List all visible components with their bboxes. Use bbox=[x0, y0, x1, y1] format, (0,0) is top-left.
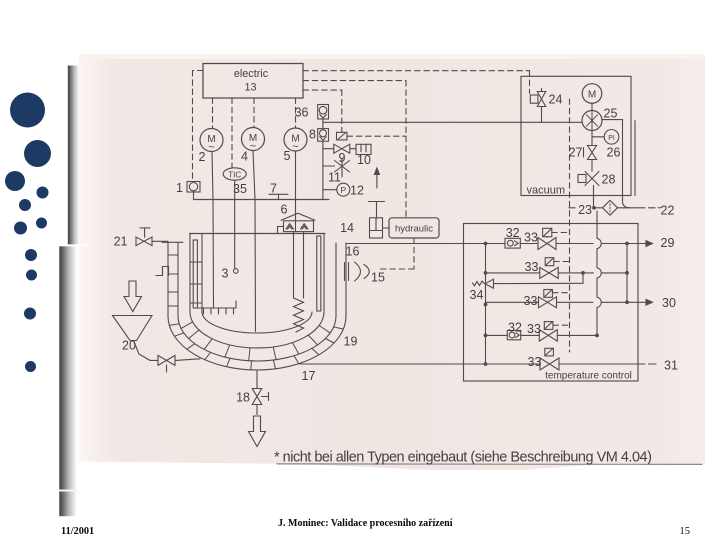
svg-text:18: 18 bbox=[236, 391, 250, 405]
svg-text:6: 6 bbox=[281, 203, 288, 217]
svg-text:28: 28 bbox=[602, 173, 616, 187]
svg-text:10: 10 bbox=[357, 153, 371, 167]
svg-text:33: 33 bbox=[527, 322, 541, 336]
svg-text:~: ~ bbox=[292, 141, 298, 153]
svg-text:hydraulic: hydraulic bbox=[395, 224, 433, 235]
svg-text:35: 35 bbox=[233, 182, 247, 196]
svg-text:25: 25 bbox=[604, 107, 618, 121]
svg-text:32: 32 bbox=[506, 226, 520, 240]
svg-text:29: 29 bbox=[661, 236, 675, 250]
svg-text:33: 33 bbox=[524, 294, 538, 308]
svg-text:24: 24 bbox=[549, 93, 563, 107]
svg-text:3: 3 bbox=[222, 267, 229, 281]
svg-text:8: 8 bbox=[309, 127, 316, 141]
svg-text:15: 15 bbox=[371, 271, 385, 285]
svg-text:13: 13 bbox=[244, 82, 256, 94]
svg-text:31: 31 bbox=[664, 359, 678, 373]
svg-text:21: 21 bbox=[114, 235, 128, 249]
svg-text:4: 4 bbox=[241, 150, 248, 164]
svg-text:27: 27 bbox=[569, 146, 583, 160]
svg-text:30: 30 bbox=[662, 296, 676, 310]
svg-text:9: 9 bbox=[339, 151, 346, 165]
svg-text:33: 33 bbox=[524, 231, 538, 245]
svg-text:33: 33 bbox=[528, 355, 542, 369]
svg-text:2: 2 bbox=[199, 150, 206, 164]
svg-text:~: ~ bbox=[208, 142, 214, 154]
svg-text:11: 11 bbox=[328, 171, 341, 185]
svg-text:TIC: TIC bbox=[228, 171, 241, 180]
svg-text:34: 34 bbox=[470, 288, 484, 302]
svg-text:vacuum: vacuum bbox=[527, 185, 566, 197]
svg-text:19: 19 bbox=[344, 335, 358, 349]
svg-text:16: 16 bbox=[346, 245, 360, 259]
svg-text:23: 23 bbox=[578, 203, 592, 217]
svg-text:electric: electric bbox=[234, 68, 269, 80]
svg-text:~: ~ bbox=[250, 141, 256, 153]
svg-text:14: 14 bbox=[340, 221, 354, 235]
svg-text:M: M bbox=[588, 90, 596, 101]
svg-text:17: 17 bbox=[302, 369, 316, 383]
svg-text:* nicht bei allen Typen eingeb: * nicht bei allen Typen eingebaut (siehe… bbox=[274, 450, 651, 466]
svg-text:33: 33 bbox=[525, 260, 539, 274]
svg-text:PI: PI bbox=[608, 135, 615, 142]
svg-text:12: 12 bbox=[350, 184, 364, 198]
svg-text:20: 20 bbox=[122, 339, 136, 353]
svg-text:1: 1 bbox=[176, 181, 183, 195]
svg-text:26: 26 bbox=[607, 146, 621, 160]
svg-text:5: 5 bbox=[284, 149, 291, 163]
svg-text:36: 36 bbox=[295, 105, 309, 119]
svg-text:7: 7 bbox=[270, 182, 277, 196]
svg-text:22: 22 bbox=[661, 204, 675, 218]
svg-text:P: P bbox=[340, 185, 346, 195]
svg-text:32: 32 bbox=[508, 320, 522, 334]
svg-text:temperature control: temperature control bbox=[545, 371, 632, 382]
